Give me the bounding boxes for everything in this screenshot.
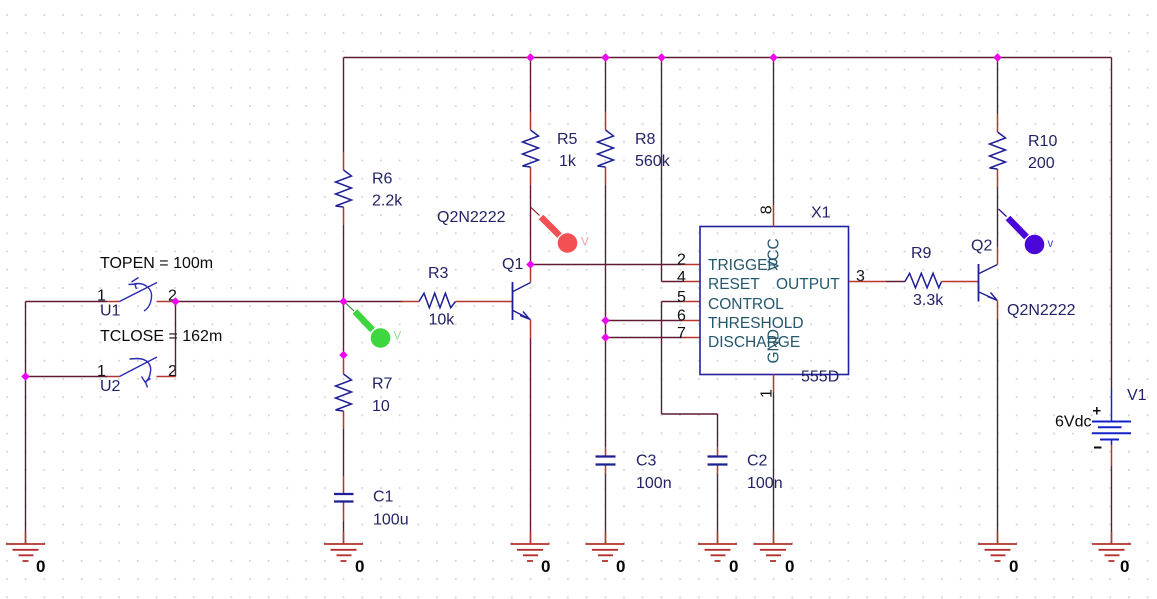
junction R7 top node bbox=[339, 351, 347, 359]
wire Q1 emitter to ground bbox=[530, 338, 532, 543]
junction Q1 collector node bbox=[526, 260, 534, 268]
resistor R7 bbox=[336, 355, 393, 429]
svg-text:100n: 100n bbox=[636, 475, 672, 492]
svg-text:R9: R9 bbox=[911, 245, 932, 262]
ground 0 below C1 bbox=[324, 544, 363, 561]
svg-text:2.2k: 2.2k bbox=[372, 193, 403, 210]
resistor R6 bbox=[336, 152, 404, 225]
junction top rail at R8 bbox=[601, 53, 609, 61]
svg-text:Q1: Q1 bbox=[502, 256, 523, 273]
svg-text:4: 4 bbox=[677, 269, 686, 286]
probe marker V red bbox=[531, 208, 589, 253]
svg-text:V: V bbox=[394, 331, 402, 343]
svg-text:C3: C3 bbox=[636, 453, 657, 470]
wire GND pin1 to ground bbox=[773, 375, 775, 393]
wire R10 to Q2 collector bbox=[997, 187, 999, 247]
svg-text:RESET: RESET bbox=[708, 276, 760, 293]
wire Q2 emitter to ground bbox=[997, 319, 999, 543]
ground 0 below Q2 bbox=[978, 544, 1017, 561]
svg-text:100u: 100u bbox=[373, 512, 409, 529]
svg-text:100n: 100n bbox=[747, 475, 783, 492]
junction top rail at RESET feed bbox=[657, 53, 665, 61]
svg-text:VCC: VCC bbox=[766, 238, 783, 271]
svg-text:OUTPUT: OUTPUT bbox=[776, 276, 840, 293]
probe marker V green bbox=[345, 303, 402, 348]
resistor R3 bbox=[401, 265, 513, 329]
ground 0 below C3 bbox=[586, 544, 625, 561]
resistor R5 bbox=[523, 58, 578, 186]
svg-text:THRESHOLD: THRESHOLD bbox=[708, 315, 804, 332]
capacitor C3 bbox=[596, 447, 672, 492]
svg-text:2: 2 bbox=[677, 252, 686, 269]
wire DISCHARGE pin7 bbox=[606, 337, 683, 339]
wire CONTROL pin5 to C2 bbox=[662, 302, 718, 448]
transistor Q2 Q2N2222 bbox=[971, 238, 1076, 320]
voltage source V1 6Vdc battery bbox=[1055, 387, 1147, 466]
switch U1 TOPEN=100m bbox=[107, 278, 176, 312]
wire VCC pin8 bbox=[773, 58, 775, 206]
IC X1 555D timer bbox=[700, 205, 849, 386]
junction center node bbox=[339, 297, 347, 305]
svg-text:555D: 555D bbox=[801, 369, 839, 386]
ground 0 below C2 bbox=[698, 544, 737, 561]
svg-text:Q2N2222: Q2N2222 bbox=[1007, 302, 1076, 319]
svg-text:0: 0 bbox=[36, 557, 45, 576]
resistor R10 bbox=[990, 58, 1058, 188]
svg-text:R5: R5 bbox=[557, 131, 578, 148]
svg-text:200: 200 bbox=[1028, 155, 1055, 172]
wire R7 to C1 bbox=[343, 429, 345, 476]
svg-text:Q2: Q2 bbox=[971, 238, 992, 255]
svg-text:C1: C1 bbox=[373, 489, 394, 506]
junction switch pins 2 bbox=[171, 297, 179, 305]
ground 0 left bbox=[6, 544, 45, 561]
svg-text:v: v bbox=[1048, 238, 1054, 250]
svg-text:6Vdc: 6Vdc bbox=[1055, 414, 1091, 431]
svg-text:0: 0 bbox=[355, 557, 364, 576]
wire OUTPUT pin3 to R9 bbox=[849, 281, 886, 283]
wire R8 down to C3 bbox=[605, 185, 607, 447]
junction top rail at VCC pin bbox=[769, 53, 777, 61]
wire top VCC rail bbox=[344, 57, 1112, 59]
svg-text:R3: R3 bbox=[428, 265, 449, 282]
svg-text:X1: X1 bbox=[811, 205, 831, 222]
resistor R8 bbox=[598, 58, 671, 186]
wire U1/U2 pin2 junction vertical bbox=[175, 302, 177, 377]
svg-text:V1: V1 bbox=[1127, 387, 1147, 404]
wire C2 to ground bbox=[717, 474, 719, 543]
ground 0 below X1 bbox=[754, 544, 793, 561]
wire TRIGGER net Q1 to X1 pin2 bbox=[531, 264, 683, 266]
svg-text:5: 5 bbox=[677, 289, 686, 306]
capacitor C1 bbox=[334, 476, 409, 529]
probe marker V blue bbox=[999, 209, 1054, 254]
resistor R9 bbox=[905, 245, 979, 309]
svg-text:1k: 1k bbox=[559, 153, 577, 170]
svg-text:C2: C2 bbox=[747, 453, 768, 470]
junction top rail at R10 bbox=[993, 53, 1001, 61]
transistor Q1 Q2N2222 bbox=[437, 209, 531, 338]
ground 0 below V1 bbox=[1092, 544, 1131, 561]
svg-text:R10: R10 bbox=[1028, 133, 1057, 150]
svg-text:CONTROL: CONTROL bbox=[708, 296, 784, 313]
svg-text:R8: R8 bbox=[635, 131, 656, 148]
wire U2 to left rail bbox=[26, 376, 108, 378]
junction THRESHOLD node bbox=[601, 316, 609, 324]
svg-text:TOPEN = 100m: TOPEN = 100m bbox=[100, 255, 213, 272]
svg-text:10: 10 bbox=[372, 398, 390, 415]
ground 0 below Q1 bbox=[511, 544, 550, 561]
capacitor C2 bbox=[708, 447, 783, 492]
svg-text:R6: R6 bbox=[372, 171, 393, 188]
wire V1 to ground bbox=[1111, 466, 1113, 543]
svg-text:TCLOSE = 162m: TCLOSE = 162m bbox=[100, 328, 222, 345]
wire left net U1 to left rail bbox=[26, 301, 108, 303]
wire R5 to Q1 collector node bbox=[530, 185, 532, 265]
junction left rail U2 bbox=[21, 372, 29, 380]
wire V1 column bbox=[1111, 58, 1113, 390]
svg-text:V: V bbox=[581, 237, 589, 249]
svg-text:0: 0 bbox=[616, 557, 625, 576]
wire C1 to ground bbox=[343, 521, 345, 543]
wire node to R7 node bbox=[343, 302, 345, 356]
wire THRESHOLD pin6 bbox=[606, 320, 683, 322]
svg-text:0: 0 bbox=[729, 557, 738, 576]
svg-text:R7: R7 bbox=[372, 376, 393, 393]
wire left rail vertical bbox=[25, 302, 27, 544]
wire switch node to center node bbox=[176, 301, 344, 303]
svg-text:Q2N2222: Q2N2222 bbox=[437, 209, 506, 226]
svg-text:560k: 560k bbox=[635, 153, 671, 170]
junction top rail at R5 bbox=[526, 53, 534, 61]
svg-text:6: 6 bbox=[677, 308, 686, 325]
wire VCC to RESET pin4 bbox=[662, 58, 683, 282]
switch U2 TCLOSE=162m bbox=[107, 357, 176, 388]
svg-text:GND: GND bbox=[766, 329, 783, 363]
wire red stubs above grounds bbox=[26, 532, 1112, 544]
wire R6 bottom to node bbox=[343, 225, 345, 302]
svg-text:DISCHARGE: DISCHARGE bbox=[708, 334, 800, 351]
svg-text:U1: U1 bbox=[100, 303, 121, 320]
svg-text:0: 0 bbox=[1009, 557, 1018, 576]
wire R6 column upper bbox=[343, 58, 345, 153]
wire center node to R3 bbox=[344, 301, 404, 303]
svg-text:0: 0 bbox=[785, 557, 794, 576]
svg-text:3.3k: 3.3k bbox=[913, 292, 944, 309]
svg-text:0: 0 bbox=[541, 557, 550, 576]
junction DISCHARGE node bbox=[601, 333, 609, 341]
svg-text:7: 7 bbox=[677, 325, 686, 342]
svg-text:10k: 10k bbox=[429, 312, 456, 329]
svg-text:U2: U2 bbox=[100, 378, 121, 395]
svg-text:3: 3 bbox=[856, 268, 865, 285]
svg-text:0: 0 bbox=[1120, 557, 1129, 576]
wire C3 to ground bbox=[605, 474, 607, 543]
